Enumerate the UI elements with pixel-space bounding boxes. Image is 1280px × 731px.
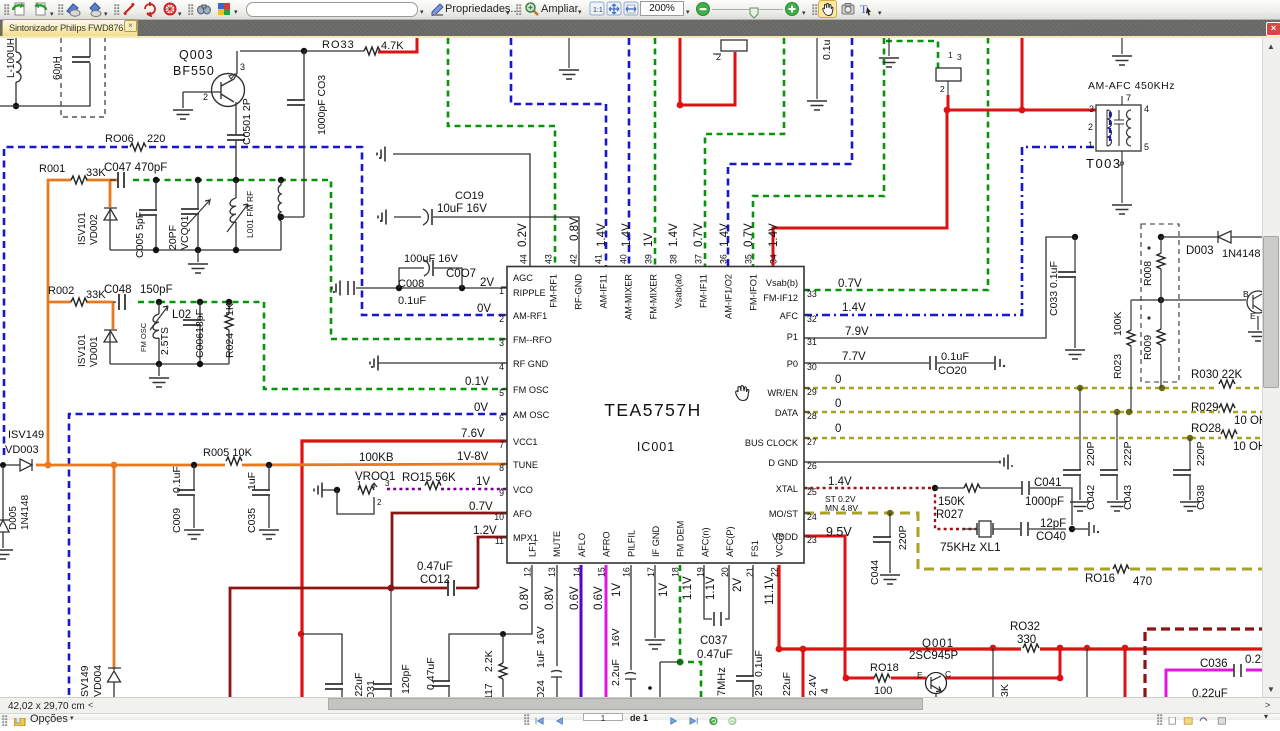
- wire R023 top link: [1131, 299, 1161, 301]
- wire orange VD002 stub: [109, 180, 112, 207]
- node c33: [1072, 234, 1078, 240]
- svg-text:AFC: AFC: [780, 311, 799, 321]
- svg-text:C037: C037: [700, 635, 728, 647]
- svg-text:3: 3: [240, 62, 245, 72]
- IC pin stubs right: [804, 289, 810, 291]
- svg-text:C048: C048: [104, 284, 132, 296]
- svg-text:0.1uF: 0.1uF: [398, 295, 426, 307]
- svg-text:330: 330: [1017, 634, 1036, 646]
- svg-text:CO40: CO40: [1036, 531, 1066, 543]
- wire green pin 18 FM-DEM down: [680, 565, 701, 697]
- ground T003: [1112, 205, 1132, 214]
- resistor R015: [425, 482, 441, 490]
- svg-text:C038: C038: [1195, 485, 1207, 510]
- resistor R016 470: [1113, 565, 1129, 573]
- node rr1: [1158, 297, 1164, 303]
- svg-text:20PF: 20PF: [167, 225, 179, 250]
- svg-text:7.9V: 7.9V: [845, 326, 869, 338]
- capacitor C03 1000pF: [303, 51, 305, 99]
- node r5: [1057, 645, 1064, 652]
- node o1: [156, 299, 162, 305]
- node or1: [45, 462, 52, 469]
- svg-text:L001 FM RF: L001 FM RF: [245, 191, 255, 238]
- wire red top right vertical: [1021, 38, 1024, 110]
- svg-text:C008: C008: [398, 278, 424, 290]
- ground C038: [1180, 502, 1200, 511]
- svg-text:1V: 1V: [611, 583, 623, 597]
- wire tank gnd stub: [197, 250, 199, 262]
- capacitor C017 0.47uF: [432, 681, 450, 686]
- crystal XL1: [963, 528, 977, 530]
- wire darkred dotted pin 25 XTAL: [804, 487, 935, 489]
- svg-text:RO16: RO16: [1085, 573, 1115, 585]
- wire olive pin 24 MO/ST: [804, 513, 1112, 569]
- svg-text:2: 2: [203, 92, 208, 102]
- node vr1: [334, 487, 340, 493]
- svg-text:1000pF: 1000pF: [1025, 496, 1064, 508]
- svg-text:0.7V: 0.7V: [838, 278, 862, 290]
- svg-text:100K: 100K: [1112, 311, 1124, 336]
- resistor R028: [1221, 430, 1237, 438]
- svg-text:0.8V: 0.8V: [519, 586, 531, 610]
- T003 cap: [1114, 110, 1124, 146]
- svg-text:1.1V: 1.1V: [682, 576, 694, 600]
- svg-text:AFO: AFO: [513, 509, 532, 519]
- svg-text:18: 18: [671, 567, 681, 577]
- T001 box: [936, 68, 961, 81]
- svg-text:AM OSC: AM OSC: [513, 410, 550, 420]
- svg-text:0.8V: 0.8V: [544, 586, 556, 610]
- node mo: [887, 510, 893, 516]
- wire maroon pin 11 MPX1 net: [478, 537, 507, 588]
- svg-text:22: 22: [770, 567, 780, 577]
- svg-text:P1: P1: [787, 332, 798, 342]
- svg-text:FM OSC: FM OSC: [139, 322, 148, 352]
- wire green top to pin 43 FM-RF1: [448, 38, 555, 266]
- svg-text:12pF: 12pF: [1040, 518, 1066, 530]
- node L out: [13, 103, 19, 109]
- node r4: [990, 645, 997, 652]
- T003 secondary coil: [1127, 110, 1132, 146]
- node r7: [1084, 645, 1090, 651]
- resistor R009: [1160, 300, 1162, 329]
- wire blue top to pin 40 AM-MIXER: [628, 38, 631, 266]
- node r301: [298, 631, 304, 637]
- svg-text:0.1uF: 0.1uF: [171, 466, 183, 493]
- wire green pin 33 Vsab(b) to top: [804, 38, 988, 290]
- wire pin26 gnd: [804, 461, 1000, 463]
- node r2: [800, 646, 807, 653]
- svg-text:PILFIL: PILFIL: [626, 530, 636, 557]
- svg-text:CO20: CO20: [938, 365, 967, 377]
- svg-text:2: 2: [1088, 122, 1093, 132]
- wire magenta C036 net: [1166, 670, 1234, 697]
- svg-text:0: 0: [835, 423, 841, 435]
- ground top T003: [1121, 38, 1123, 54]
- svg-text:AGC: AGC: [513, 273, 533, 283]
- wire blue bus VD002 net to pin 2 AM-RF1: [4, 147, 128, 455]
- svg-text:117: 117: [483, 683, 495, 697]
- resistor R002: [71, 298, 87, 306]
- inductor FM RF coil tapped: [280, 180, 282, 185]
- svg-text:FM-RF1: FM-RF1: [549, 274, 559, 308]
- svg-text:R024: R024: [224, 333, 236, 358]
- ground pin17: [645, 640, 665, 649]
- ground C035: [259, 530, 279, 539]
- wire red R033 to top: [378, 38, 417, 52]
- svg-text:1: 1: [1088, 140, 1093, 150]
- svg-text:1K: 1K: [224, 303, 236, 316]
- svg-text:WR/EN: WR/EN: [767, 388, 798, 398]
- wire pin30 P0: [804, 362, 929, 364]
- red filter box top: [721, 40, 747, 51]
- svg-text:R005 10K: R005 10K: [203, 447, 253, 459]
- resistor R030 22K: [1219, 380, 1235, 388]
- wire to end cap: [1072, 528, 1088, 530]
- svg-text:0.2V: 0.2V: [517, 223, 529, 247]
- resistor R1 R033: [304, 50, 364, 52]
- svg-text:MN 4.8V: MN 4.8V: [825, 503, 858, 513]
- resistor R001: [71, 176, 87, 184]
- wire green to pin 5 FM-OSC: [138, 302, 507, 389]
- svg-text:T003: T003: [1086, 156, 1122, 171]
- svg-text:BUS CLOCK: BUS CLOCK: [745, 438, 799, 448]
- node r1: [776, 646, 783, 653]
- node x1: [932, 485, 938, 491]
- svg-text:39: 39: [644, 254, 654, 264]
- svg-text:RO06: RO06: [105, 133, 134, 145]
- wire T001 red down: [947, 95, 950, 110]
- wire maroon dashed board border: [1145, 629, 1262, 697]
- svg-text:34: 34: [769, 254, 779, 264]
- capacitor C008: [348, 281, 354, 295]
- svg-text:42: 42: [569, 254, 579, 264]
- svg-text:0.22uF: 0.22uF: [1192, 688, 1228, 697]
- inductor LO2: [158, 302, 160, 314]
- capacitor C007 100uF: [424, 260, 429, 276]
- ground C019: [378, 210, 386, 225]
- svg-text:1.4V: 1.4V: [719, 223, 731, 247]
- wire red pin 22 VCC2 rail: [779, 565, 1021, 649]
- node o2: [197, 299, 203, 305]
- svg-text:1: 1: [357, 480, 362, 489]
- node or4: [266, 462, 272, 468]
- diode D003: [1218, 231, 1262, 243]
- svg-text:E: E: [1250, 311, 1256, 321]
- node g3: [233, 177, 239, 183]
- svg-text:38: 38: [669, 254, 679, 264]
- svg-text:Vsab(b): Vsab(b): [766, 278, 798, 288]
- svg-text:220P: 220P: [1195, 441, 1207, 466]
- varicap VC001: [197, 180, 199, 209]
- capacitor C029: [736, 676, 754, 681]
- svg-text:1:1: 1:1: [593, 7, 603, 14]
- svg-text:IC001: IC001: [637, 440, 675, 454]
- wire RF tank bottom: [110, 249, 281, 251]
- wire tap to C03: [281, 216, 304, 218]
- svg-text:O31: O31: [365, 680, 377, 697]
- transistor Q1 Q001: [926, 673, 947, 694]
- wire orange R002 leg: [48, 302, 113, 329]
- svg-text:RO33: RO33: [322, 39, 355, 51]
- svg-text:1.1V: 1.1V: [705, 576, 717, 600]
- ground VR001: [314, 483, 322, 498]
- svg-text:2V: 2V: [480, 277, 494, 289]
- resistor R008: [1160, 237, 1162, 253]
- svg-text:CO12: CO12: [420, 574, 450, 586]
- wire C044 branch: [889, 513, 891, 537]
- ground FM OSC: [149, 378, 169, 387]
- svg-text:FM-IF12: FM-IF12: [763, 293, 798, 303]
- wire red branch 1125 down: [1124, 648, 1127, 697]
- svg-text:R001: R001: [39, 163, 65, 175]
- svg-text:D005: D005: [8, 506, 19, 530]
- svg-text:15: 15: [597, 567, 607, 577]
- svg-text:2.4V: 2.4V: [807, 674, 819, 696]
- svg-text:2V: 2V: [732, 578, 744, 592]
- svg-text:FM-IF11: FM-IF11: [699, 274, 709, 308]
- node C038: [1187, 435, 1193, 441]
- svg-text:TEA5757H: TEA5757H: [604, 400, 702, 420]
- wire green top to pin 35 FM-IFO1: [753, 38, 884, 266]
- svg-text:7: 7: [1126, 93, 1131, 103]
- svg-text:O24: O24: [535, 680, 547, 697]
- svg-text:1: 1: [948, 50, 953, 60]
- wire red VCC1 pin 7: [302, 441, 507, 697]
- wire pin21 net: [752, 565, 754, 676]
- svg-text:FS1: FS1: [750, 540, 760, 557]
- wire 1087 branch: [1086, 648, 1088, 697]
- ground D005: [0, 550, 13, 559]
- capacitor end: [1089, 522, 1094, 536]
- transistor Q2 Q003: [212, 74, 245, 107]
- svg-text:1V: 1V: [658, 583, 670, 597]
- svg-text:41: 41: [594, 254, 604, 264]
- ground C033: [1065, 350, 1085, 359]
- wire Q003 base gnd: [182, 92, 184, 108]
- svg-text:VCC2: VCC2: [775, 532, 785, 557]
- wire pin17 gnd: [654, 565, 656, 638]
- resistor R029: [1219, 404, 1235, 412]
- svg-text:R023: R023: [1112, 354, 1124, 379]
- svg-text:B: B: [1243, 289, 1249, 299]
- svg-text:ISV101: ISV101: [77, 212, 88, 245]
- svg-text:1uF: 1uF: [535, 650, 547, 668]
- svg-text:0.22: 0.22: [1245, 654, 1262, 666]
- svg-text:4: 4: [819, 688, 831, 694]
- capacitor C033: [1074, 237, 1076, 272]
- capacitor C035: [268, 465, 270, 490]
- svg-text:0.8V: 0.8V: [569, 217, 581, 241]
- svg-text:FM-MIXER: FM-MIXER: [649, 274, 659, 320]
- svg-text:0.47uF: 0.47uF: [697, 649, 733, 661]
- wire blue top to pin 41 AM-IF11: [511, 38, 606, 266]
- svg-text:1000pF CO3: 1000pF CO3: [316, 75, 328, 135]
- svg-text:LF1: LF1: [528, 541, 538, 557]
- wire olive pin 27 BUS CLOCK: [804, 437, 1221, 440]
- svg-text:33K: 33K: [86, 289, 106, 301]
- svg-text:1.2V: 1.2V: [473, 525, 497, 537]
- svg-text:16V: 16V: [610, 628, 622, 647]
- wire C031 link: [301, 634, 342, 684]
- svg-text:MUTE: MUTE: [552, 531, 562, 557]
- wire R008 top to D003: [1161, 236, 1218, 238]
- wire red branch at 803: [802, 649, 805, 697]
- capacitor C005 5pF: [155, 180, 157, 210]
- diode VD002: [104, 208, 117, 220]
- svg-text:VCO: VCO: [513, 485, 533, 495]
- svg-text:14: 14: [572, 567, 582, 577]
- node c8a: [396, 285, 402, 291]
- svg-text:VD003: VD003: [5, 444, 39, 456]
- svg-text:AFRO: AFRO: [602, 531, 612, 557]
- svg-text:R002: R002: [48, 285, 74, 297]
- node r3: [843, 675, 850, 682]
- svg-text:AM-MIXER: AM-MIXER: [624, 274, 634, 320]
- capacitor in dashed box: [72, 57, 90, 62]
- svg-text:C044: C044: [869, 560, 881, 585]
- node C042: [1077, 385, 1083, 391]
- svg-text:C047 470pF: C047 470pF: [104, 162, 167, 174]
- node c8b: [459, 285, 465, 291]
- wire pin13 net: [556, 565, 558, 666]
- svg-text:1V: 1V: [643, 233, 655, 247]
- svg-text:10uF 16V: 10uF 16V: [437, 203, 487, 215]
- inductor L-100UH1: [15, 38, 17, 52]
- svg-text:C009: C009: [171, 508, 183, 533]
- svg-text:C042: C042: [1085, 485, 1097, 510]
- svg-text:0.47uF: 0.47uF: [417, 561, 453, 573]
- capacitor C020: [930, 356, 936, 370]
- svg-text:D GND: D GND: [768, 458, 798, 468]
- wire green to pin 3 FM-RFO: [133, 180, 507, 339]
- svg-text:75KHz XL1: 75KHz XL1: [940, 540, 1001, 554]
- capacitor C036: [1234, 664, 1241, 677]
- svg-text:P0: P0: [787, 359, 798, 369]
- node b3: [233, 247, 239, 253]
- ground pin1: [332, 281, 340, 296]
- wire purple dotted pin 9 VCO: [387, 488, 424, 490]
- svg-text:ISV101: ISV101: [77, 334, 88, 367]
- svg-text:ISV149: ISV149: [8, 429, 44, 441]
- wire maroon pin 10 AFO net: [392, 513, 507, 588]
- svg-text:44: 44: [519, 254, 529, 264]
- capacitor C009: [193, 465, 195, 490]
- wire green top to pin 39 FM-MIXER: [654, 38, 657, 266]
- svg-text:C043: C043: [1122, 485, 1134, 510]
- svg-text:16: 16: [621, 567, 631, 577]
- diode D005: [0, 465, 9, 548]
- svg-text:0.1uF: 0.1uF: [941, 351, 969, 363]
- svg-text:C033 0.1uF: C033 0.1uF: [1048, 261, 1060, 316]
- svg-text:Vsab(a0: Vsab(a0: [674, 274, 684, 308]
- IC pin stubs left: [501, 286, 507, 288]
- svg-text:R030 22K: R030 22K: [1191, 369, 1242, 381]
- ground top 569: [568, 38, 570, 68]
- wire T003 gnd: [1121, 151, 1123, 203]
- svg-text:RO32: RO32: [1010, 621, 1040, 633]
- node small: [648, 686, 652, 690]
- wire magenta pin 15 AFRO: [605, 565, 608, 697]
- svg-text:10 OHI: 10 OHI: [1233, 441, 1262, 453]
- node rtop: [1158, 234, 1164, 240]
- svg-text:Q001: Q001: [922, 638, 954, 650]
- svg-text:3: 3: [957, 52, 962, 62]
- node tap: [278, 214, 284, 220]
- ground pin4: [370, 356, 378, 371]
- svg-text:TUNE: TUNE: [513, 460, 538, 470]
- svg-text:13: 13: [547, 567, 557, 577]
- wire pin16 net: [630, 565, 632, 670]
- node g4: [278, 177, 284, 183]
- capacitor C031: [325, 684, 343, 689]
- svg-text:Q003: Q003: [179, 48, 214, 62]
- node ob2: [197, 361, 203, 367]
- ground top 889: [888, 38, 890, 56]
- op-amp U1 IC001 TEA5757H body: [507, 267, 804, 564]
- svg-text:AM-RF1: AM-RF1: [513, 311, 547, 321]
- svg-text:C035: C035: [246, 508, 258, 533]
- capacitor C042 220P: [1079, 388, 1081, 470]
- svg-text:100uF 16V: 100uF 16V: [404, 253, 458, 265]
- wire blue pin 32 AFC to T003 pin 1: [804, 147, 1096, 315]
- svg-text:1V: 1V: [476, 476, 490, 488]
- svg-text:220P: 220P: [1085, 441, 1097, 466]
- svg-text:2.5TS: 2.5TS: [159, 327, 171, 355]
- svg-text:1.4V: 1.4V: [596, 223, 608, 247]
- capacitor C006 18pF: [199, 302, 201, 320]
- svg-text:AM-IF11: AM-IF11: [599, 274, 609, 309]
- resistor R005: [226, 457, 242, 465]
- svg-text:DATA: DATA: [775, 408, 799, 418]
- svg-text:AFLO: AFLO: [577, 533, 587, 557]
- ground pin44: [377, 147, 385, 162]
- wire violet pin 14 AFLO: [580, 565, 583, 697]
- capacitor C025: [625, 673, 636, 674]
- capacitor C041: [1022, 481, 1029, 495]
- svg-text:16V: 16V: [535, 626, 547, 645]
- potentiometer VR001: [358, 486, 374, 494]
- svg-text:C005 5pF: C005 5pF: [134, 212, 146, 258]
- svg-text:C041: C041: [1034, 477, 1062, 489]
- svg-text:9.5V: 9.5V: [826, 525, 852, 539]
- svg-text:150pF: 150pF: [140, 284, 173, 296]
- capacitor C3 C0501: [227, 135, 245, 140]
- svg-text:3K: 3K: [999, 684, 1011, 697]
- wire OSC bottom: [110, 363, 229, 365]
- svg-text:BF550: BF550: [173, 64, 215, 78]
- svg-text:L-100UH1: L-100UH1: [6, 38, 17, 78]
- wire osc gnd stub: [158, 364, 160, 376]
- diode VD001: [104, 330, 117, 342]
- ground C043: [1107, 502, 1127, 511]
- wire red T003 pin3 net to pin 34: [773, 110, 947, 266]
- wire blue top to pin 36 AM-IF1/O2: [728, 38, 852, 266]
- wire base link: [1161, 299, 1246, 301]
- svg-text:1.4V: 1.4V: [842, 302, 866, 314]
- capacitor C012: [448, 580, 454, 596]
- svg-text:XTAL: XTAL: [776, 484, 798, 494]
- svg-text:0.1uF: 0.1uF: [753, 650, 765, 677]
- wire maroon LF rail: [230, 588, 478, 697]
- svg-text:3: 3: [385, 479, 390, 488]
- svg-text:IF GND: IF GND: [651, 526, 661, 557]
- svg-text:VCQ01: VCQ01: [179, 215, 191, 250]
- node ro9: [1159, 385, 1165, 391]
- svg-text:2: 2: [940, 84, 945, 94]
- svg-text:R008: R008: [1142, 261, 1154, 286]
- ground pin26: [1000, 455, 1008, 470]
